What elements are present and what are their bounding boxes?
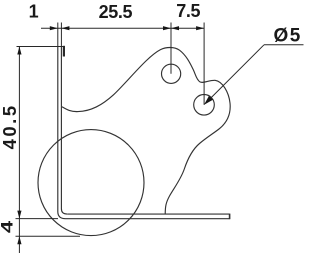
- extension line bar bottom: [16, 218, 59, 220]
- svg-text:40.5: 40.5: [0, 103, 20, 149]
- left vertical dimension line: [18, 47, 20, 254]
- arrow 40.5 bottom / 4 top (points down): [17, 211, 21, 219]
- extension line leg left face: [57, 23, 59, 47]
- svg-text:7.5: 7.5: [176, 1, 200, 21]
- leader arrowhead at big hole center: [204, 96, 213, 105]
- arrow 7.5 left (points left): [171, 26, 179, 30]
- bracket horizontal leg top face: [67, 213, 229, 215]
- bracket vertical leg right face (inner): [61, 47, 67, 215]
- extension line leg top: [17, 46, 65, 48]
- svg-text:25.5: 25.5: [99, 2, 133, 22]
- extension line big hole center: [203, 23, 205, 105]
- arrow 7.5 right (points right): [196, 26, 204, 30]
- extension line circle bottom: [16, 235, 81, 237]
- extension line small hole center: [170, 23, 172, 74]
- small hole: [162, 64, 181, 83]
- extension line leg right face: [60, 23, 62, 47]
- big hole (diameter 5): [194, 95, 215, 116]
- svg-text:1: 1: [29, 2, 39, 22]
- bracket horizontal leg right end cap: [229, 214, 231, 220]
- leader line shoulder: [264, 44, 304, 46]
- bracket vertical leg left face: [58, 47, 66, 219]
- leader line diagonal: [206, 45, 264, 103]
- plate outline (wavy flange profile): [62, 47, 230, 213]
- plate left edge (bold short segment): [63, 46, 65, 57]
- arrow 25.5 right (points right): [163, 26, 171, 30]
- arrow 40.5 top (points up): [17, 47, 21, 55]
- svg-text:4: 4: [0, 221, 16, 234]
- bracket horizontal leg bottom face: [66, 218, 230, 220]
- arrow thickness dim left (points right): [50, 26, 58, 30]
- large circle (tube / wheel phantom): [38, 130, 144, 236]
- arrow thickness dim right / 25.5 left (points left): [61, 26, 69, 30]
- arrow 4 bottom (points up from below): [17, 236, 21, 244]
- top dimension line: [41, 27, 204, 29]
- svg-text:Ø5: Ø5: [274, 26, 302, 47]
